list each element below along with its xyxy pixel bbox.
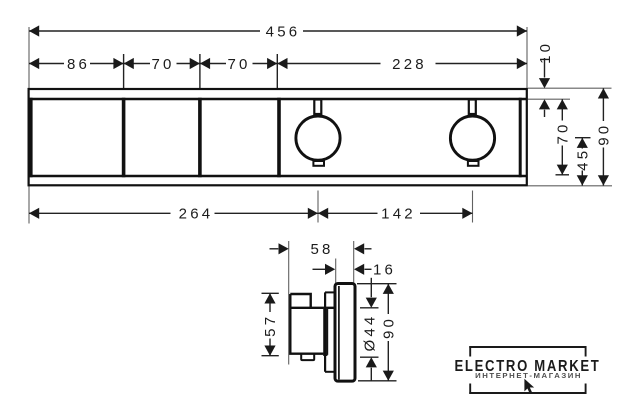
svg-text:90: 90 (381, 316, 398, 339)
svg-text:70: 70 (151, 56, 174, 73)
svg-text:264: 264 (179, 206, 214, 223)
svg-text:86: 86 (67, 56, 90, 73)
svg-text:ИНТЕРНЕТ-МАГАЗИН: ИНТЕРНЕТ-МАГАЗИН (475, 371, 582, 380)
svg-text:70: 70 (555, 121, 572, 144)
svg-text:228: 228 (392, 56, 427, 73)
svg-text:58: 58 (310, 241, 333, 258)
svg-text:Ø44: Ø44 (362, 314, 379, 352)
svg-text:45: 45 (575, 148, 592, 171)
svg-text:90: 90 (596, 123, 613, 146)
svg-text:10: 10 (537, 41, 554, 64)
svg-text:70: 70 (227, 56, 250, 73)
svg-text:57: 57 (262, 314, 279, 337)
svg-text:142: 142 (381, 206, 416, 223)
svg-text:456: 456 (266, 23, 301, 40)
svg-text:16: 16 (373, 262, 396, 279)
